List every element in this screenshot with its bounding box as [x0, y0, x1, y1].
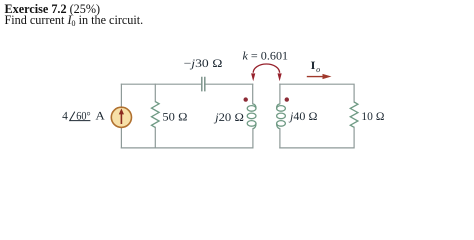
svg-text:10 Ω: 10 Ω	[361, 111, 384, 123]
svg-text:4: 4	[62, 111, 68, 123]
svg-text:−j30 Ω: −j30 Ω	[184, 58, 223, 70]
svg-text:A: A	[95, 111, 105, 123]
svg-text:I: I	[311, 60, 316, 72]
svg-text:k = 0.601: k = 0.601	[243, 51, 289, 63]
svg-text:j20 Ω: j20 Ω	[213, 112, 244, 124]
svg-text:j40 Ω: j40 Ω	[288, 111, 318, 123]
svg-text:50 Ω: 50 Ω	[162, 112, 187, 124]
svg-text:o: o	[316, 65, 320, 74]
